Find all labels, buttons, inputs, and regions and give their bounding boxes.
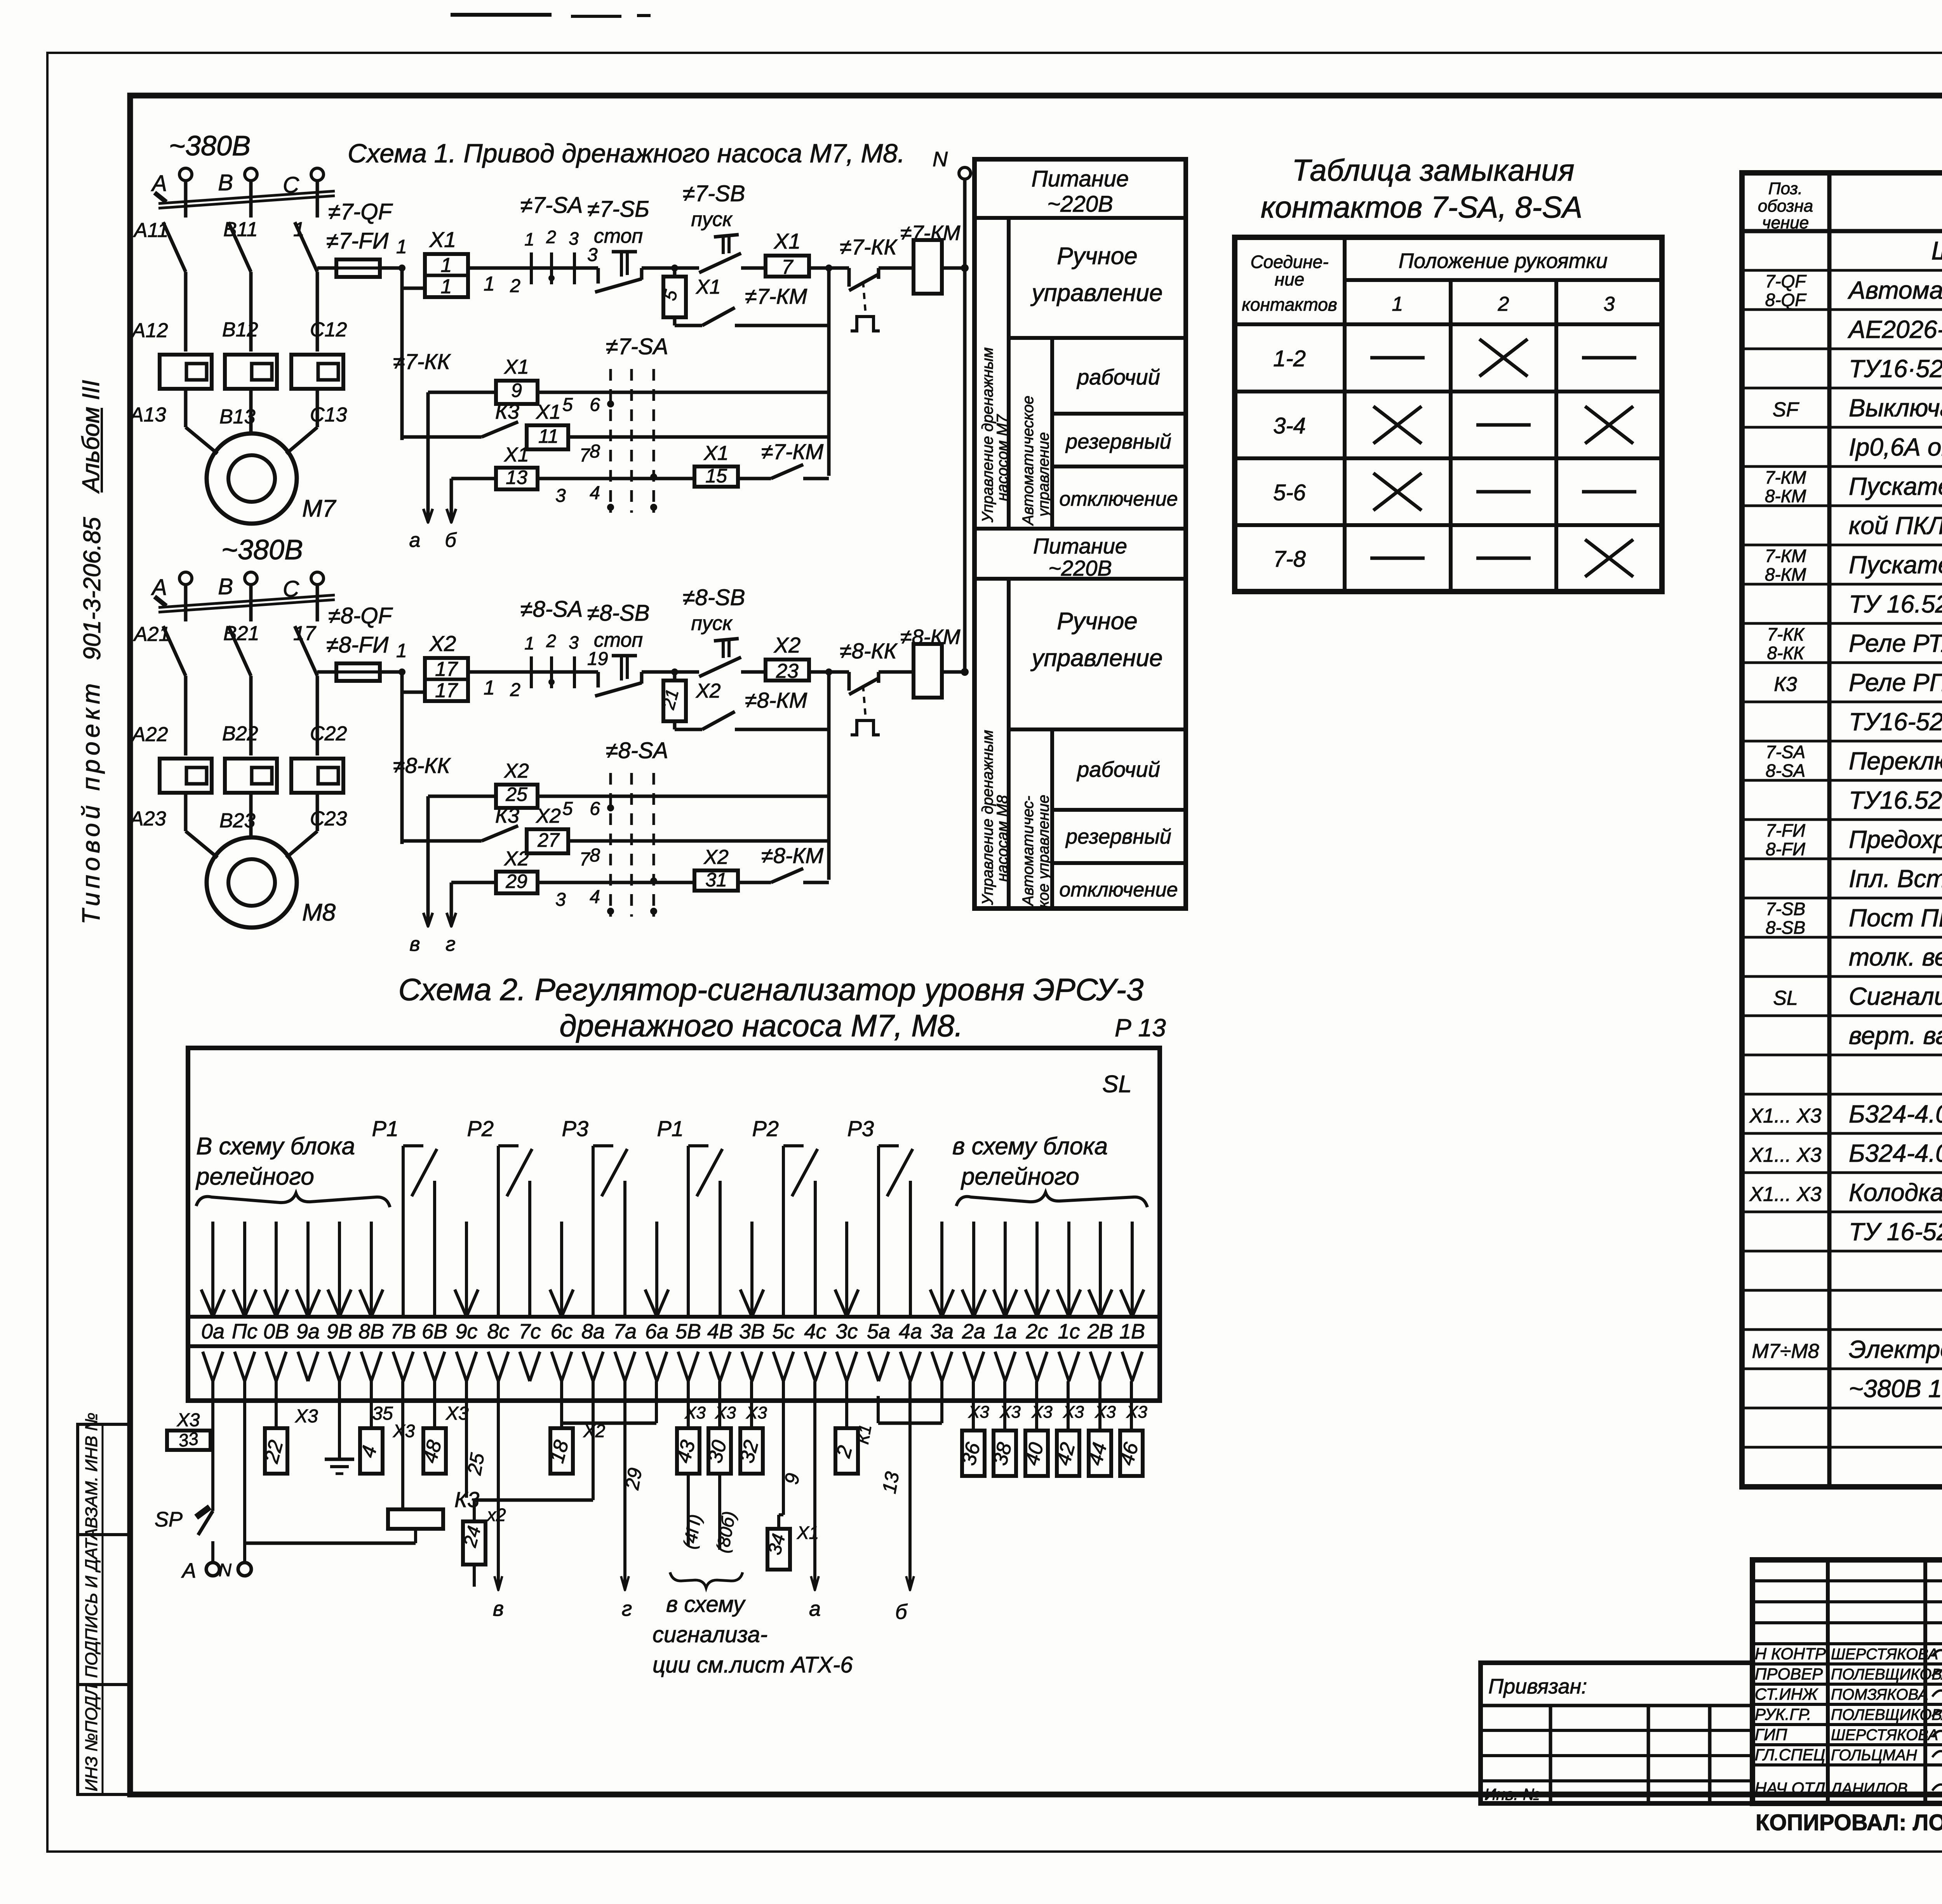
svg-text:≠7-КМ: ≠7-КМ — [745, 284, 807, 308]
svg-text:3: 3 — [555, 889, 566, 910]
svg-text:≠8-КМ: ≠8-КМ — [761, 843, 824, 868]
svg-text:а: а — [409, 529, 421, 552]
svg-text:верт. вар.1 длина 2,0м. ТУ25,0: верт. вар.1 длина 2,0м. ТУ25,02-080678-7… — [1849, 1022, 1942, 1049]
svg-text:2: 2 — [546, 227, 556, 247]
svg-text:~220В: ~220В — [1047, 191, 1113, 217]
svg-text:1В: 1В — [1119, 1320, 1145, 1343]
svg-text:Выключатель А63-МУЗ V~380В: Выключатель А63-МУЗ V~380В — [1849, 394, 1942, 422]
start button 7-SB — [675, 266, 699, 270]
relay contact K3 + block X1 11 — [402, 435, 482, 439]
svg-text:Б324-4.0П25-В/В УЗ-10 ТУ16-526: Б324-4.0П25-В/В УЗ-10 ТУ16-526.462-79 — [1849, 1139, 1942, 1167]
svg-text:ИНЗ №ПОДЛ: ИНЗ №ПОДЛ — [82, 1684, 101, 1791]
svg-text:N: N — [933, 148, 948, 171]
svg-text:контактов: контактов — [1242, 294, 1337, 315]
svg-text:резервный: резервный — [1065, 430, 1171, 453]
svg-text:6с: 6с — [550, 1320, 573, 1343]
svg-text:≠7-QF: ≠7-QF — [328, 199, 393, 225]
block X1 13 — [451, 477, 496, 480]
svg-text:X2: X2 — [429, 631, 456, 656]
thermal contact 7-KK — [829, 266, 849, 270]
svg-text:А11: А11 — [133, 219, 169, 242]
left incoming arrows group — [211, 1222, 214, 1316]
svg-text:3В: 3В — [739, 1320, 765, 1343]
svg-text:управление: управление — [1035, 432, 1052, 518]
svg-text:1: 1 — [396, 640, 407, 661]
svg-text:4: 4 — [590, 483, 600, 503]
svg-text:А23: А23 — [129, 808, 166, 830]
svg-text:А21: А21 — [133, 623, 170, 646]
svg-text:В23: В23 — [219, 809, 256, 832]
svg-text:Таблица замыкания: Таблица замыкания — [1292, 153, 1574, 187]
svg-text:В21: В21 — [223, 622, 259, 645]
svg-text:3: 3 — [569, 228, 579, 249]
svg-text:Пускатель ПМЛ 210004 с пристав: Пускатель ПМЛ 210004 с пристав- — [1849, 472, 1942, 500]
relay contact Р1 — [687, 1146, 690, 1317]
svg-text:г: г — [445, 933, 456, 955]
svg-text:≠8-QF: ≠8-QF — [328, 603, 393, 628]
svg-text:Х3: Х3 — [393, 1421, 415, 1441]
svg-text:8-КК: 8-КК — [1767, 643, 1805, 663]
svg-text:6а: 6а — [645, 1320, 668, 1343]
svg-text:5В: 5В — [675, 1320, 701, 1343]
svg-text:релейного: релейного — [961, 1163, 1079, 1190]
svg-text:Питание: Питание — [1032, 166, 1129, 191]
svg-text:кое управление: кое управление — [1035, 795, 1052, 908]
svg-text:ВЗАМ. ИНВ №: ВЗАМ. ИНВ № — [82, 1413, 101, 1528]
node — [825, 668, 832, 675]
svg-text:В схему блока: В схему блока — [196, 1133, 355, 1160]
svg-text:в: в — [493, 1597, 504, 1620]
svg-text:≠7-SВ: ≠7-SВ — [683, 181, 745, 206]
svg-text:Автоматичес-: Автоматичес- — [1020, 796, 1037, 907]
svg-text:Сигнализатор ЭРСУ-3 компл. дат: Сигнализатор ЭРСУ-3 компл. датчик — [1849, 982, 1942, 1010]
svg-text:8а: 8а — [581, 1320, 605, 1343]
svg-text:X2: X2 — [536, 805, 561, 827]
svg-text:1: 1 — [524, 229, 534, 249]
svg-text:дренажного насоса М7, М8.: дренажного насоса М7, М8. — [559, 1008, 963, 1043]
svg-text:7-QF: 7-QF — [1765, 271, 1807, 291]
svg-text:5: 5 — [562, 395, 573, 415]
svg-text:4: 4 — [590, 887, 600, 907]
svg-text:1: 1 — [293, 218, 305, 241]
svg-text:ПОЛЕВЩИКОВА: ПОЛЕВЩИКОВА — [1831, 1666, 1942, 1683]
svg-text:13: 13 — [506, 466, 527, 488]
svg-text:А: А — [151, 171, 167, 196]
svg-text:≠7-SA: ≠7-SA — [606, 334, 668, 359]
svg-text:8с: 8с — [487, 1320, 509, 1343]
svg-text:6: 6 — [590, 799, 600, 819]
svg-text:15: 15 — [705, 465, 727, 487]
right brace — [956, 1192, 1147, 1207]
svg-text:2В: 2В — [1087, 1320, 1113, 1343]
svg-text:Автоматический выключатель: Автоматический выключатель — [1847, 276, 1942, 304]
svg-text:X2: X2 — [504, 760, 529, 782]
svg-text:0В: 0В — [263, 1320, 289, 1343]
node — [671, 668, 678, 675]
svg-text:X1: X1 — [536, 401, 561, 423]
svg-text:X1: X1 — [703, 442, 729, 465]
svg-text:Схема 1. Привод дренажного нас: Схема 1. Привод дренажного насоса М7, М8… — [348, 139, 905, 168]
svg-text:≠7-КМ: ≠7-КМ — [761, 439, 824, 464]
block X1 15 + contact 7-KM — [694, 466, 738, 487]
svg-text:К3: К3 — [495, 804, 519, 827]
stop button 7-SB — [597, 268, 600, 284]
svg-text:Х3: Х3 — [295, 1406, 318, 1427]
node 1 — [398, 265, 405, 272]
contactor coil 8-KM — [914, 644, 942, 698]
svg-text:чение: чение — [1762, 213, 1809, 232]
svg-text:С22: С22 — [310, 722, 347, 745]
thermal elements 8-KK — [160, 759, 212, 793]
relay contact Р2 — [782, 1146, 785, 1317]
svg-text:X2: X2 — [504, 848, 529, 870]
svg-text:Р3: Р3 — [562, 1116, 589, 1141]
svg-text:2с: 2с — [1025, 1320, 1048, 1343]
svg-text:≠8-SВ: ≠8-SВ — [683, 585, 745, 610]
block 4 (8В) — [370, 1381, 373, 1428]
svg-text:а: а — [809, 1597, 821, 1620]
svg-text:7с: 7с — [519, 1320, 541, 1343]
svg-text:23: 23 — [776, 660, 799, 682]
svg-text:X1: X1 — [696, 276, 721, 298]
privyazan block — [1481, 1663, 1752, 1803]
svg-text:В11: В11 — [223, 218, 258, 241]
selector switch 8-SA contacts — [520, 670, 598, 674]
svg-text:≠8-SВ: ≠8-SВ — [587, 600, 650, 626]
svg-text:толк. верх. 1з.1р. толк.ниж.кр: толк. верх. 1з.1р. толк.ниж.красн. 1з.1р… — [1849, 943, 1942, 971]
svg-text:Положение рукоятки: Положение рукоятки — [1399, 249, 1608, 273]
svg-text:2: 2 — [510, 276, 520, 296]
svg-text:X2: X2 — [703, 846, 729, 868]
svg-text:2: 2 — [546, 631, 556, 651]
svg-text:5а: 5а — [867, 1320, 890, 1343]
svg-text:2: 2 — [1498, 293, 1509, 315]
svg-text:≠7-SБ: ≠7-SБ — [587, 197, 649, 222]
svg-text:≠8-FИ: ≠8-FИ — [326, 632, 389, 658]
function table (Питание/управление) — [974, 159, 1186, 908]
svg-text:7-SВ: 7-SВ — [1766, 899, 1805, 919]
svg-text:Альбом III: Альбом III — [78, 380, 104, 494]
svg-text:7: 7 — [579, 445, 591, 466]
K3 coil — [388, 1509, 443, 1529]
relay contact Р3 — [877, 1146, 880, 1317]
svg-text:Переключатель ПКУ 3-12С-УЗ: Переключатель ПКУ 3-12С-УЗ — [1849, 747, 1942, 775]
svg-text:отключение: отключение — [1059, 879, 1178, 901]
svg-text:≠8-КМ: ≠8-КМ — [745, 688, 807, 712]
svg-text:1: 1 — [441, 254, 452, 277]
svg-text:1а: 1а — [994, 1320, 1017, 1343]
svg-text:N: N — [219, 1560, 232, 1580]
wire 29 / г (7а) — [623, 1381, 626, 1589]
svg-text:SF: SF — [1773, 399, 1800, 421]
svg-text:ДАНИЛОВ: ДАНИЛОВ — [1829, 1780, 1908, 1797]
wire 9 (5с) to block 34 — [782, 1381, 785, 1515]
svg-text:рабочий: рабочий — [1076, 757, 1160, 781]
svg-text:7-FИ: 7-FИ — [1766, 820, 1805, 841]
svg-text:стоп: стоп — [594, 225, 643, 247]
svg-text:В: В — [218, 574, 233, 599]
svg-text:Ручное: Ручное — [1057, 608, 1138, 635]
svg-text:0а: 0а — [201, 1320, 224, 1343]
node — [671, 265, 678, 272]
svg-text:8В: 8В — [358, 1320, 384, 1343]
selector switch 7-SA contacts — [520, 266, 598, 270]
svg-text:2а: 2а — [962, 1320, 985, 1343]
self hold contact wire — [673, 721, 677, 729]
svg-text:7-SA: 7-SA — [1766, 742, 1805, 762]
svg-text:КОПИРОВАЛ: ЛОГИНОВА: КОПИРОВАЛ: ЛОГИНОВА — [1756, 1810, 1942, 1835]
svg-text:Iр0,6А отс. 2,5 ТУ16-522; 110: Iр0,6А отс. 2,5 ТУ16-522; 110-74 — [1849, 433, 1942, 461]
parts table — [1742, 173, 1942, 1487]
svg-text:6В: 6В — [422, 1320, 447, 1343]
svg-text:пуск: пуск — [691, 208, 733, 231]
svg-text:≠8-SA: ≠8-SA — [606, 738, 668, 763]
block X2 31 + contact 8-KM — [694, 870, 738, 891]
X3 33 block + SP switch + A N terminals — [167, 1431, 211, 1450]
terminal block X2 23 — [766, 660, 809, 680]
svg-text:17: 17 — [435, 658, 458, 680]
signature grid rows — [1752, 1579, 1942, 1582]
svg-text:С: С — [283, 576, 299, 602]
svg-text:8-FИ: 8-FИ — [1766, 839, 1805, 859]
svg-text:Р2: Р2 — [752, 1116, 779, 1141]
node 1 — [398, 668, 405, 675]
svg-text:ние: ние — [1275, 269, 1304, 289]
svg-text:ШЕРСТЯКОВА: ШЕРСТЯКОВА — [1831, 1726, 1938, 1744]
left margin stamp strip — [78, 1424, 130, 1794]
svg-text:X1: X1 — [504, 444, 529, 466]
svg-text:≠7-КК: ≠7-КК — [393, 349, 451, 374]
terminal block X1 1 — [425, 254, 468, 297]
svg-text:Питание: Питание — [1033, 534, 1127, 558]
svg-text:7-КМ: 7-КМ — [1765, 546, 1806, 566]
svg-text:~380В 1,5кВт: ~380В 1,5кВт — [1849, 1375, 1942, 1403]
svg-text:Iпл. Вст. 2А ТУ16.522.112-74: Iпл. Вст. 2А ТУ16.522.112-74 — [1849, 865, 1942, 893]
svg-text:Х3: Х3 — [746, 1403, 767, 1422]
svg-text:7-КМ: 7-КМ — [1765, 467, 1806, 487]
svg-text:М8: М8 — [302, 899, 336, 926]
block 2 (3с) — [845, 1381, 848, 1428]
svg-text:11: 11 — [538, 425, 559, 447]
svg-text:Р3: Р3 — [847, 1116, 874, 1141]
outgoing V heads — [203, 1352, 213, 1381]
signature grid verticals — [1826, 1560, 1830, 1803]
svg-text:Р1: Р1 — [657, 1116, 684, 1141]
self hold contact wire — [673, 317, 677, 325]
relay contact Р3 — [592, 1146, 595, 1317]
svg-text:контактов 7-SA, 8-SA: контактов 7-SA, 8-SA — [1261, 190, 1582, 224]
wire — [468, 670, 520, 674]
blocks 43 30 32 — [687, 1381, 690, 1428]
svg-text:ПОМЗЯКОВА: ПОМЗЯКОВА — [1831, 1686, 1928, 1703]
svg-text:А22: А22 — [131, 723, 168, 746]
svg-text:Х3: Х3 — [999, 1403, 1021, 1422]
svg-text:Х3: Х3 — [968, 1403, 989, 1422]
svg-text:5: 5 — [562, 799, 573, 819]
svg-text:А: А — [151, 575, 167, 600]
svg-text:Схема 2. Регулятор-сигнализат: Схема 2. Регулятор-сигнализатор уровня Э… — [398, 972, 1144, 1007]
svg-text:сигнализа-: сигнализа- — [653, 1622, 767, 1647]
svg-text:насосам М8: насосам М8 — [994, 795, 1011, 882]
svg-text:9с: 9с — [455, 1320, 477, 1343]
svg-text:С23: С23 — [310, 808, 347, 830]
title block main frame — [1752, 1560, 1942, 1803]
svg-text:Поз.: Поз. — [1768, 179, 1803, 198]
svg-text:25: 25 — [505, 783, 527, 805]
terminal block X1 5 — [673, 268, 677, 277]
svg-text:33: 33 — [177, 1428, 200, 1451]
svg-text:1: 1 — [484, 273, 495, 295]
svg-text:К1: К1 — [853, 1423, 875, 1446]
svg-text:М7: М7 — [302, 495, 337, 522]
svg-text:8-QF: 8-QF — [1765, 290, 1807, 310]
ground at 9В — [338, 1381, 341, 1459]
svg-text:в схему: в схему — [666, 1592, 746, 1617]
motor M8 — [207, 837, 297, 928]
signature squiggle 3 — [1932, 1711, 1942, 1718]
svg-text:8-КМ: 8-КМ — [1765, 486, 1806, 506]
svg-text:8-SВ: 8-SВ — [1766, 917, 1805, 938]
blocks 36 38 40 42 44 46 — [972, 1381, 975, 1431]
svg-text:SL: SL — [1773, 987, 1798, 1009]
svg-text:Привязан:: Привязан: — [1488, 1675, 1587, 1698]
svg-text:Х1... Х3: Х1... Х3 — [1749, 1144, 1822, 1166]
svg-text:Х3: Х3 — [684, 1403, 706, 1422]
selector 7-SA auto contact columns — [609, 369, 612, 513]
svg-text:Предохранитель ПРС6УЗ-П: Предохранитель ПРС6УЗ-П — [1849, 825, 1942, 853]
svg-text:4с: 4с — [804, 1320, 826, 1343]
svg-text:Колодка торцевая КТ5У.: Колодка торцевая КТ5У. — [1849, 1178, 1942, 1206]
terminal block X2 1 — [425, 658, 468, 701]
svg-text:1с: 1с — [1058, 1320, 1080, 1343]
terminal block X2 21 — [673, 672, 677, 680]
svg-text:8-КМ: 8-КМ — [1765, 564, 1806, 585]
svg-text:ГИП: ГИП — [1755, 1725, 1787, 1744]
block 48 (6В) — [433, 1381, 436, 1428]
svg-text:Х1... Х3: Х1... Х3 — [1749, 1183, 1822, 1206]
relay contact Р2 — [497, 1146, 500, 1317]
svg-text:4а: 4а — [899, 1320, 922, 1343]
svg-text:ПОЛЕВЩИКОВА: ПОЛЕВЩИКОВА — [1831, 1706, 1942, 1723]
svg-text:≠7-КК: ≠7-КК — [840, 235, 898, 259]
svg-text:1-2: 1-2 — [1273, 346, 1306, 371]
svg-text:Х3: Х3 — [177, 1410, 200, 1431]
svg-text:3с: 3с — [835, 1320, 858, 1343]
svg-text:А12: А12 — [131, 319, 168, 342]
svg-text:ГЛ.СПЕЦ: ГЛ.СПЕЦ — [1755, 1746, 1825, 1764]
svg-text:29: 29 — [621, 1466, 646, 1492]
svg-text:X1: X1 — [429, 227, 456, 252]
wires to motor — [186, 831, 218, 858]
relay contact K3 + block X2 27 — [402, 839, 482, 843]
svg-text:Б324-4.0П25-В/В УЗ-5 ТУ16-526.: Б324-4.0П25-В/В УЗ-5 ТУ16-526.462-79 — [1849, 1100, 1942, 1128]
svg-text:Р1: Р1 — [372, 1116, 399, 1141]
svg-text:Шкаф управления Ш7: Шкаф управления Ш7 — [1931, 236, 1942, 265]
svg-text:К3: К3 — [1774, 673, 1797, 696]
svg-text:3-4: 3-4 — [1273, 413, 1306, 439]
svg-text:8: 8 — [590, 845, 600, 866]
svg-text:в: в — [409, 933, 420, 955]
svg-text:пуск: пуск — [691, 612, 733, 635]
fuse 8-FU — [317, 670, 336, 674]
stop button 8-SB — [597, 672, 600, 687]
svg-text:управление: управление — [1030, 645, 1163, 672]
svg-text:б: б — [445, 529, 457, 552]
svg-text:X2: X2 — [773, 633, 801, 657]
svg-text:~220В: ~220В — [1048, 556, 1112, 580]
svg-text:СТ.ИНЖ: СТ.ИНЖ — [1755, 1685, 1818, 1703]
svg-text:С12: С12 — [310, 318, 347, 341]
svg-text:НАЧ ОТД: НАЧ ОТД — [1755, 1779, 1825, 1797]
svg-text:1: 1 — [524, 633, 534, 653]
svg-text:релейного: релейного — [195, 1163, 314, 1190]
svg-text:3: 3 — [569, 632, 579, 653]
block 18 (6с) + 6а jog — [655, 1381, 658, 1423]
svg-text:насосом М7: насосом М7 — [994, 414, 1011, 501]
thermal contact 8-KK — [829, 670, 849, 674]
breaker 8-QF — [163, 626, 186, 676]
svg-text:SL: SL — [1102, 1071, 1132, 1098]
terminal 0В to block 22 — [275, 1381, 278, 1428]
svg-text:б: б — [895, 1600, 908, 1624]
svg-text:ТУ16-523, 554-78.: ТУ16-523, 554-78. — [1849, 708, 1942, 736]
svg-text:3: 3 — [587, 245, 598, 265]
svg-text:Пускатель ПМЛ 120004: Пускатель ПМЛ 120004 — [1849, 551, 1942, 579]
svg-text:27: 27 — [537, 829, 560, 851]
svg-text:Х3: Х3 — [1063, 1403, 1084, 1422]
right incoming arrows group — [972, 1222, 975, 1316]
svg-text:Х3: Х3 — [1031, 1403, 1053, 1422]
svg-text:5с: 5с — [772, 1320, 794, 1343]
svg-text:А: А — [181, 1559, 196, 1582]
svg-text:31: 31 — [705, 869, 727, 891]
svg-text:ТУ 16-526.462-79: ТУ 16-526.462-79 — [1849, 1218, 1942, 1246]
svg-text:~380В: ~380В — [169, 131, 251, 162]
svg-text:С: С — [283, 172, 299, 198]
svg-text:Электродвигатель 4А×80В4: Электродвигатель 4А×80В4 — [1849, 1335, 1942, 1363]
svg-text:ТУ16.526.047-74: ТУ16.526.047-74 — [1849, 786, 1942, 814]
svg-text:901-3-206.85: 901-3-206.85 — [79, 517, 106, 660]
svg-text:Х2: Х2 — [583, 1421, 605, 1441]
signature squiggle 4 — [1932, 1731, 1942, 1738]
svg-text:С13: С13 — [310, 404, 347, 426]
wire — [468, 266, 520, 270]
wire в (8с) — [497, 1381, 500, 1589]
svg-text:ции см.лист АТХ-6: ции см.лист АТХ-6 — [653, 1652, 853, 1678]
svg-text:SР: SР — [155, 1508, 183, 1531]
svg-text:19: 19 — [587, 649, 608, 669]
auto row: block X1 9 — [428, 391, 496, 394]
svg-text:1: 1 — [396, 236, 407, 258]
svg-text:ШЕРСТЯКОВА: ШЕРСТЯКОВА — [1831, 1646, 1938, 1663]
start button 8-SB — [675, 670, 699, 674]
svg-text:ПОДПИСЬ И ДАТА: ПОДПИСЬ И ДАТА — [82, 1528, 101, 1678]
svg-text:7: 7 — [782, 256, 794, 278]
signature squiggle 5 — [1932, 1751, 1942, 1758]
auto row: block X2 25 — [428, 795, 496, 798]
svg-text:Ручное: Ручное — [1057, 243, 1138, 270]
svg-text:7В: 7В — [390, 1320, 416, 1343]
middle incoming arrows — [465, 1222, 468, 1316]
svg-text:1: 1 — [1392, 293, 1403, 315]
svg-text:35: 35 — [372, 1403, 393, 1424]
svg-text:8-SA: 8-SA — [1766, 761, 1805, 781]
svg-text:В: В — [218, 170, 233, 195]
svg-text:≠7-КМ: ≠7-КМ — [900, 221, 960, 245]
motor M7 — [207, 433, 297, 524]
svg-text:В13: В13 — [219, 406, 256, 428]
svg-text:г: г — [622, 1597, 632, 1620]
